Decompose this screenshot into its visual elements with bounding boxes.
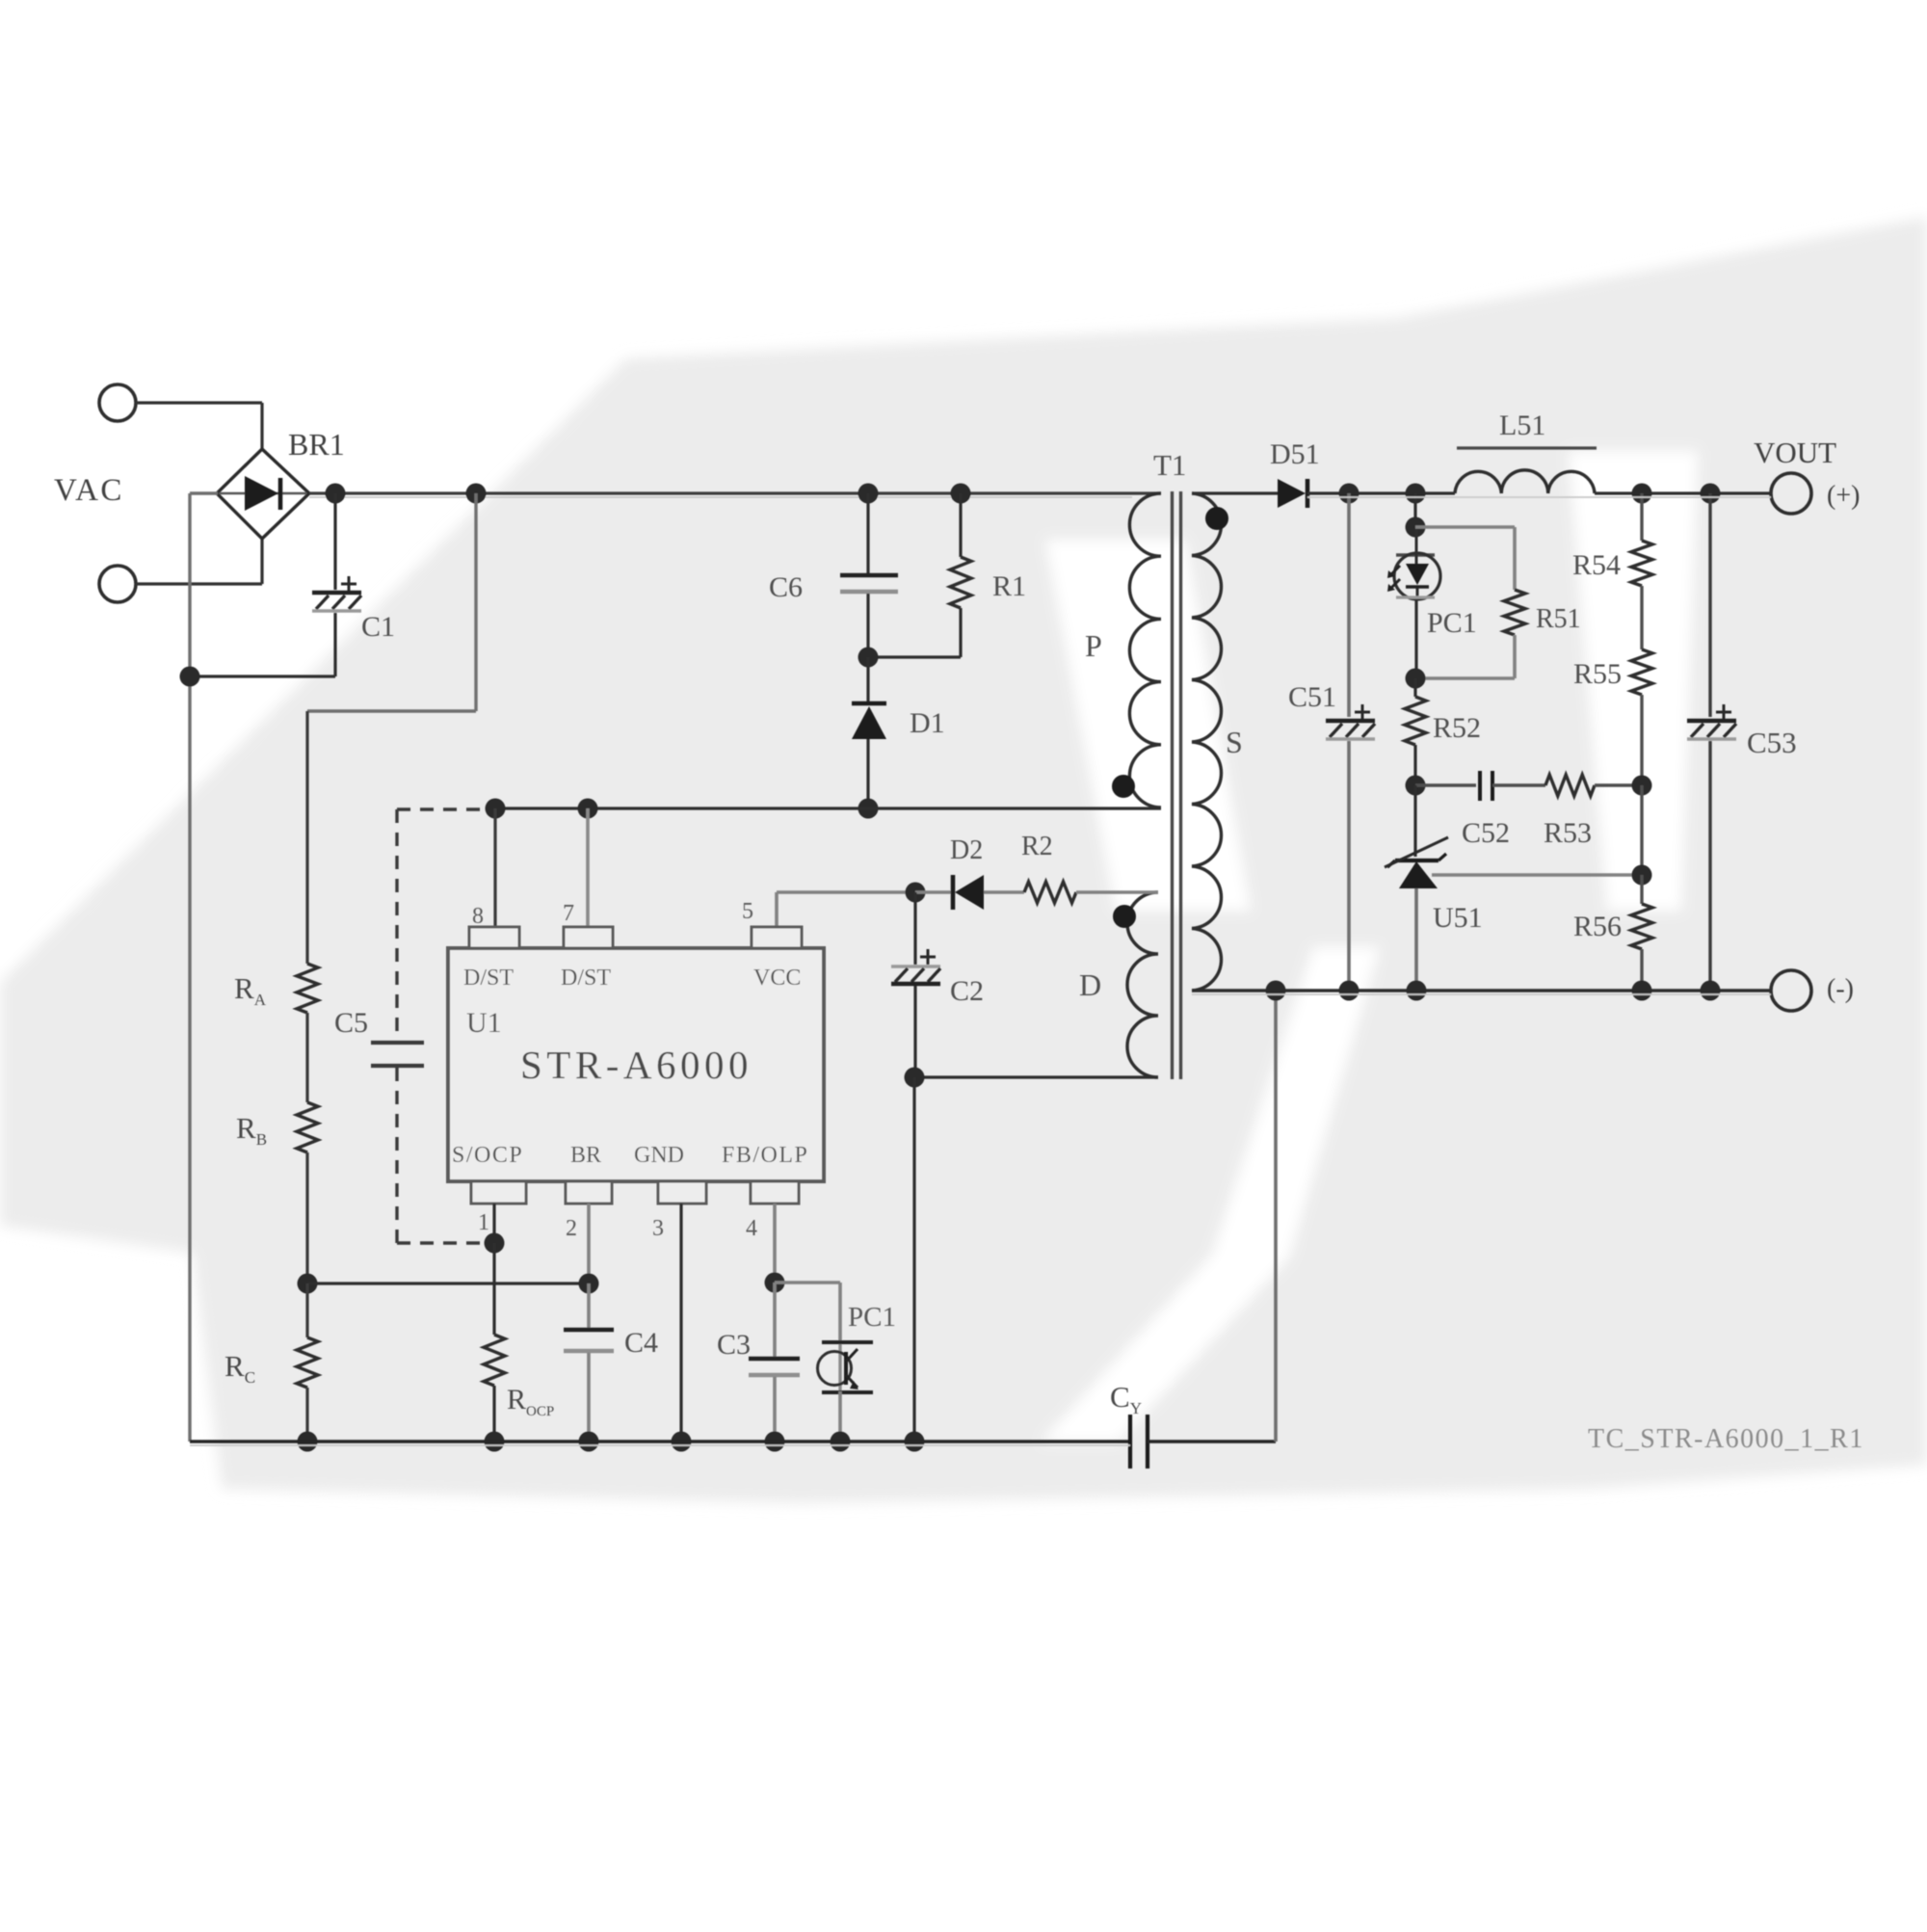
svg-text:7: 7 xyxy=(563,901,574,926)
svg-text:S: S xyxy=(1226,725,1243,759)
phase dot D winding xyxy=(1113,905,1136,928)
phase dot S winding xyxy=(1205,507,1228,530)
svg-text:D: D xyxy=(1079,967,1101,1002)
svg-text:PC1: PC1 xyxy=(1427,607,1477,639)
svg-text:BR: BR xyxy=(570,1143,601,1168)
wire node to C4/pin2 xyxy=(307,1282,589,1284)
node pin4/C3/PC1 xyxy=(765,1273,785,1293)
resistor R2 xyxy=(1024,882,1076,903)
svg-text:5: 5 xyxy=(742,899,753,924)
wire secondary return rail xyxy=(1192,989,1771,992)
terminal VAC bottom xyxy=(99,566,136,602)
node C2/D-winding return xyxy=(905,1068,925,1088)
wire C1 bottom to left bus xyxy=(190,675,335,677)
capacitor C5 (dashed connection) xyxy=(397,807,487,810)
optocoupler PC1 LED xyxy=(1413,493,1416,527)
node top rail / RA feed xyxy=(466,484,487,504)
svg-text:R54: R54 xyxy=(1572,549,1621,581)
terminal VAC top xyxy=(99,384,136,421)
resistor R52 xyxy=(1413,678,1416,697)
capacitor C52 xyxy=(1415,783,1476,786)
node GND rail xyxy=(672,1432,692,1452)
svg-text:STR-A6000: STR-A6000 xyxy=(520,1043,752,1087)
svg-text:D/ST: D/ST xyxy=(561,966,611,991)
capacitor C53 xyxy=(1708,493,1711,717)
wire pin 7 xyxy=(586,808,590,927)
wire pin 1 S/OCP xyxy=(492,1204,495,1243)
pin 2 stub xyxy=(566,1181,612,1204)
node C51 top xyxy=(1339,484,1359,504)
capacitor C3 xyxy=(773,1283,777,1357)
wire L51 to VOUT xyxy=(1595,491,1771,494)
svg-text:C51: C51 xyxy=(1288,681,1336,713)
pin 7 stub xyxy=(564,927,613,948)
wire S winding top to D51 xyxy=(1192,491,1278,494)
transformer core xyxy=(1171,491,1174,1079)
svg-text:GND: GND xyxy=(634,1143,684,1168)
node D1 to drain wire xyxy=(858,799,879,819)
node RC to ground rail xyxy=(298,1432,318,1452)
svg-text:2: 2 xyxy=(566,1216,577,1241)
capacitor C51 xyxy=(1347,493,1351,717)
node U51 bottom xyxy=(1407,981,1427,1001)
transformer T1 auxiliary winding D xyxy=(1127,892,1158,1077)
svg-text:L51: L51 xyxy=(1499,410,1545,441)
svg-text:R53: R53 xyxy=(1544,817,1592,849)
node LED/R51/R52 xyxy=(1406,669,1426,689)
node top rail / C1 xyxy=(326,484,346,504)
phase dot P winding xyxy=(1112,775,1135,798)
node R56 bottom xyxy=(1632,981,1652,1001)
wire left vertical bus xyxy=(188,493,191,1442)
svg-text:VCC: VCC xyxy=(753,966,801,991)
wire drain (P winding bottom to D/ST pins) xyxy=(495,807,1161,809)
node aux return ground xyxy=(905,1432,925,1452)
resistor R1 xyxy=(959,493,962,557)
bridge rectifier BR1 xyxy=(217,449,309,539)
terminal VOUT plus xyxy=(1771,473,1811,514)
svg-text:C5: C5 xyxy=(334,1007,368,1039)
node pin8/drain xyxy=(486,799,506,819)
svg-text:C1: C1 xyxy=(361,611,395,643)
svg-text:R52: R52 xyxy=(1433,712,1481,744)
svg-text:VAC: VAC xyxy=(54,473,124,508)
wire bottom terminal to BR1 xyxy=(136,582,262,585)
wire aux return to ground rail xyxy=(912,1077,915,1442)
wire FB to PC1 transistor xyxy=(775,1281,840,1284)
node pin1/C5 xyxy=(485,1233,505,1254)
resistor ROCP xyxy=(492,1243,495,1335)
terminal VOUT minus xyxy=(1771,970,1811,1011)
svg-text:TC_STR-A6000_1_R1: TC_STR-A6000_1_R1 xyxy=(1588,1424,1864,1454)
capacitor C2 xyxy=(913,892,916,965)
svg-text:S/OCP: S/OCP xyxy=(452,1143,523,1168)
svg-text:D/ST: D/ST xyxy=(463,966,514,991)
resistor RC xyxy=(305,1284,308,1337)
svg-text:D2: D2 xyxy=(950,835,983,865)
wire U51 reference xyxy=(1432,873,1642,877)
svg-text:U1: U1 xyxy=(466,1007,502,1039)
node VCC/C2/D2 xyxy=(906,883,926,903)
svg-text:(-): (-) xyxy=(1827,974,1854,1004)
svg-text:C52: C52 xyxy=(1462,817,1510,849)
svg-text:VOUT: VOUT xyxy=(1754,436,1836,469)
svg-text:1: 1 xyxy=(478,1210,489,1235)
svg-text:C2: C2 xyxy=(950,975,984,1007)
optocoupler PC1 phototransistor xyxy=(838,1342,841,1392)
node ROCP ground xyxy=(485,1432,505,1452)
resistor RA xyxy=(297,964,318,1013)
node C53 bottom xyxy=(1701,981,1721,1001)
wire pin 8 xyxy=(493,808,496,927)
node left bus / C1 return xyxy=(180,667,200,687)
wire to R51 xyxy=(1415,525,1515,529)
wire pin 2 BR xyxy=(587,1204,591,1284)
pin 3 stub xyxy=(658,1181,706,1204)
svg-text:R51: R51 xyxy=(1536,604,1581,634)
svg-text:D51: D51 xyxy=(1270,438,1320,470)
transformer T1 secondary winding S xyxy=(1192,493,1222,991)
capacitor C6 xyxy=(866,493,869,573)
node divider top xyxy=(1632,484,1652,504)
node C51 bottom xyxy=(1339,981,1359,1001)
wire top rail (rectified DC) xyxy=(309,491,1161,494)
node divider/C52-R53 xyxy=(1632,776,1652,796)
wire RB to node xyxy=(305,1152,308,1284)
svg-text:R2: R2 xyxy=(1021,832,1053,861)
resistor R51 xyxy=(1504,590,1525,635)
wire BR1 left vertex to left bus xyxy=(190,491,218,494)
node PC1 branch top xyxy=(1406,484,1426,504)
resistor R56 xyxy=(1640,875,1643,904)
svg-text:8: 8 xyxy=(472,904,484,929)
svg-text:R56: R56 xyxy=(1573,911,1622,942)
inductor L51 xyxy=(1455,470,1595,493)
capacitor C4 xyxy=(587,1284,591,1328)
pin 8 stub xyxy=(469,927,519,948)
wire D winding bottom xyxy=(914,1075,1158,1078)
svg-text:4: 4 xyxy=(746,1216,757,1241)
svg-text:C6: C6 xyxy=(769,571,803,603)
svg-text:(+): (+) xyxy=(1827,481,1860,511)
svg-text:PC1: PC1 xyxy=(848,1302,896,1333)
pin 5 stub xyxy=(752,927,802,948)
op IC U1 STR-A6000 body xyxy=(448,948,824,1181)
resistor R55 xyxy=(1640,586,1643,649)
wire D51 to L51 xyxy=(1307,491,1455,494)
transformer T1 primary winding P xyxy=(1129,493,1161,807)
wire RA to RB xyxy=(305,1013,308,1102)
diode D2 xyxy=(915,890,952,894)
resistor R54 xyxy=(1640,493,1643,541)
resistor RB xyxy=(297,1102,318,1152)
svg-text:C53: C53 xyxy=(1747,726,1797,759)
svg-text:C4: C4 xyxy=(624,1327,658,1359)
svg-text:FB/OLP: FB/OLP xyxy=(722,1143,808,1168)
svg-text:R1: R1 xyxy=(992,570,1026,602)
svg-text:U51: U51 xyxy=(1433,902,1483,934)
svg-text:P: P xyxy=(1085,628,1102,663)
pin 4 stub xyxy=(751,1181,799,1204)
wire feed to RA divider xyxy=(474,493,477,711)
capacitor CY xyxy=(1128,1415,1132,1469)
node RB/RC/BR-pin wire xyxy=(298,1274,318,1294)
svg-text:D1: D1 xyxy=(910,707,945,739)
svg-text:C3: C3 xyxy=(717,1329,751,1361)
node pin7/drain xyxy=(578,799,598,819)
node top rail / R1 xyxy=(951,484,971,504)
node top rail / C6 xyxy=(858,484,879,504)
node C53 top xyxy=(1701,484,1721,504)
capacitor C1 xyxy=(333,493,336,590)
diode D51 xyxy=(1278,479,1306,508)
node PC1 ground xyxy=(831,1432,851,1452)
resistor R53 xyxy=(1492,783,1545,786)
svg-text:T1: T1 xyxy=(1153,448,1186,482)
node divider/REF xyxy=(1632,865,1652,886)
svg-text:3: 3 xyxy=(652,1216,664,1241)
node pin2/C4 xyxy=(579,1274,599,1294)
wire top terminal to BR1 xyxy=(136,401,262,404)
node CY/secondary return xyxy=(1266,981,1286,1001)
svg-text:BR1: BR1 xyxy=(288,427,345,462)
wire C6/R1 junction xyxy=(868,655,961,658)
node C6/D1 xyxy=(858,648,879,668)
wire primary ground rail xyxy=(190,1440,1130,1443)
wire pin 4 FB/OLP xyxy=(773,1204,777,1283)
diode D1 xyxy=(866,657,869,702)
node C3 ground xyxy=(765,1432,785,1452)
node C4 ground xyxy=(579,1432,599,1452)
pin 1 stub xyxy=(471,1181,526,1204)
wire pin 3 GND xyxy=(679,1204,682,1442)
node R52/C52/U51 xyxy=(1406,776,1426,796)
wire CY to secondary return xyxy=(1274,991,1278,1442)
shunt regulator U51 xyxy=(1413,785,1416,857)
wire VCC pin5 xyxy=(775,892,779,927)
svg-text:R55: R55 xyxy=(1573,658,1622,690)
